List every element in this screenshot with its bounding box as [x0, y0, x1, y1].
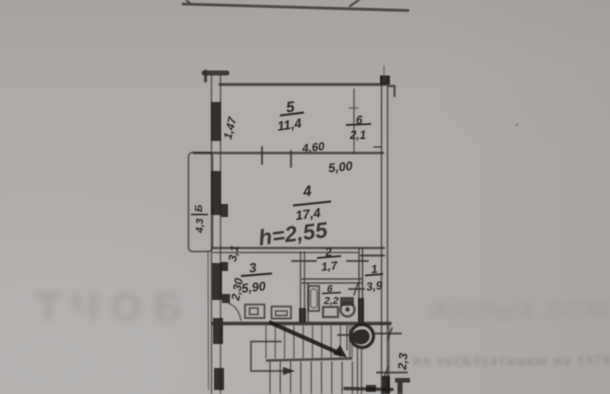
balcony label rotated	[191, 204, 208, 234]
kitchen right wall inner	[304, 252, 306, 322]
svg-text:3,9: 3,9	[366, 280, 384, 294]
stairwell right wall b	[361, 348, 363, 394]
wall right tick above corner	[383, 66, 385, 75]
stove burner	[250, 308, 259, 315]
svg-text:4,3: 4,3	[194, 218, 206, 234]
hall fraction bar	[365, 274, 383, 276]
hall dimension slash	[354, 283, 358, 295]
stair landing edge	[267, 359, 351, 361]
stair right vertical short	[351, 326, 353, 358]
wall right outer line	[381, 76, 383, 394]
kitchen right wall corner block	[299, 308, 306, 322]
divider wall lower block	[358, 298, 364, 322]
top title remnant left tick	[186, 0, 190, 3]
kitchen sink outline	[272, 307, 292, 319]
svg-text:4,60: 4,60	[301, 141, 326, 155]
dimension tick b	[290, 151, 292, 167]
tick vertical near circle	[346, 326, 348, 350]
wall left solid segment 2	[211, 171, 221, 215]
wall left solid segment 3	[212, 263, 222, 300]
right dimension line lower	[377, 372, 407, 374]
hall room1 top wall	[361, 254, 384, 256]
svg-text:2,1: 2,1	[349, 130, 366, 142]
stair lower flight treads	[270, 362, 352, 394]
stair upper flight treads	[266, 326, 350, 358]
bath/hall divider wall outer	[358, 248, 360, 322]
bottom right wall block	[382, 376, 390, 394]
kitchen door swing arc	[228, 303, 241, 321]
wall left outer line	[211, 75, 213, 394]
bath/hall divider wall inner	[362, 248, 364, 322]
door jamb block kitchen top	[221, 262, 228, 271]
stair walk line L-shape with arrow	[251, 342, 283, 372]
bathroom top wall lower	[302, 282, 362, 284]
svg-text:1,7: 1,7	[321, 260, 339, 274]
ventilation circle inner blob	[352, 329, 370, 344]
toilet bowl dot	[345, 307, 349, 311]
interior paper slightly lighter	[212, 85, 388, 394]
bathtub outline	[309, 286, 320, 311]
svg-text:2,2: 2,2	[323, 295, 339, 307]
wall right corner hook	[388, 86, 395, 96]
corridor dimension tick right	[347, 260, 368, 262]
right dimension line upper	[373, 333, 401, 335]
wall left solid segment 1	[211, 102, 221, 141]
top title underline	[183, 4, 408, 11]
kitchen sink inner	[276, 311, 288, 316]
bottom right L mark horizontal	[395, 378, 410, 383]
stair direction diagonal	[269, 322, 341, 354]
wash basin	[323, 307, 338, 317]
wall left top cap	[204, 71, 227, 76]
bathroom left inner wall	[307, 283, 309, 322]
wall left top notch	[204, 71, 207, 81]
hall dimension tick	[349, 288, 364, 290]
wall right corner blob	[380, 76, 390, 85]
bottom dark line right	[345, 389, 392, 390]
top title remnant stroke	[350, 0, 359, 6]
room 4 fraction bar	[293, 202, 331, 206]
tiny speck	[515, 123, 518, 126]
wall between room5 and room4 with dimension line	[194, 152, 383, 154]
room 3 fraction bar	[241, 274, 272, 277]
balcony outline	[189, 153, 213, 252]
svg-text:5,00: 5,00	[328, 159, 354, 175]
bathroom top wall upper	[302, 278, 362, 280]
watermark right lower faint serif line	[413, 353, 610, 370]
building outer edge below balcony	[207, 252, 210, 390]
svg-text:Б: Б	[193, 204, 205, 212]
room 5 fraction bar	[280, 113, 304, 116]
bottom right L mark vertical	[398, 382, 403, 394]
wall left solid segment 5	[214, 368, 224, 390]
svg-text:2,3: 2,3	[395, 352, 411, 371]
corridor dimension tick left	[292, 260, 316, 262]
toilet bowl	[341, 303, 355, 317]
kitchen right wall outer	[300, 252, 302, 322]
stairwell right wall a	[357, 348, 359, 394]
wall right inner line	[387, 76, 389, 394]
door jamb block room4	[221, 204, 228, 217]
wall room4 bottom upper line	[213, 247, 384, 249]
partition room5/room6 closet	[353, 89, 355, 153]
wall room4 bottom lower line	[213, 252, 358, 254]
wall left solid segment 4	[213, 318, 223, 344]
watermark left faint bleed-through	[36, 287, 193, 330]
wall top (room 5)	[220, 83, 385, 86]
right edge vertical	[388, 326, 390, 394]
right dimension slash lower	[384, 367, 388, 378]
door jamb block kitchen bottom	[222, 294, 230, 303]
bathtub inner	[311, 289, 318, 308]
stove outline	[245, 305, 265, 319]
dimension tick at right wall 5.00	[374, 146, 381, 148]
dimension tick a	[261, 147, 263, 164]
apartment bottom wall	[213, 322, 390, 325]
bottom blob	[366, 385, 376, 392]
toilet tank	[341, 298, 353, 305]
stair walk arrowhead	[283, 367, 295, 375]
right dimension slash upper	[388, 328, 392, 339]
closet fraction bar	[346, 124, 371, 125]
tick left of circle	[338, 334, 350, 336]
bathroom fraction bar	[322, 293, 341, 294]
watermark right faint bleed-through	[428, 297, 610, 326]
wall left inner line	[220, 75, 222, 394]
closet tick	[349, 107, 358, 109]
corridor fraction bar	[317, 256, 341, 258]
ventilation circle ring	[351, 325, 374, 348]
stair diagonal arrowhead	[333, 345, 347, 358]
